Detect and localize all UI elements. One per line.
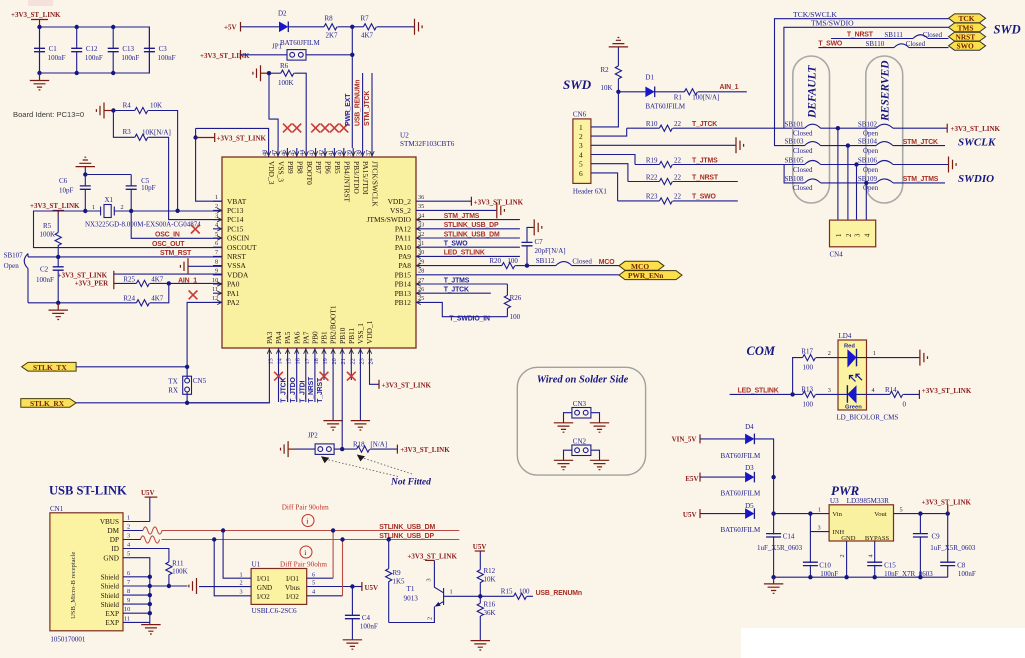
svg-text:100nF: 100nF	[85, 54, 103, 62]
resistor R5 100K	[40, 216, 62, 257]
U2 left pin names	[227, 197, 257, 307]
svg-text:Wired on Solder Side: Wired on Solder Side	[537, 375, 629, 386]
svg-text:PA7: PA7	[301, 331, 310, 344]
svg-text:BAT60JFILM: BAT60JFILM	[645, 103, 685, 111]
svg-text:USB_RENUMn: USB_RENUMn	[355, 80, 362, 126]
wire +3V3 to VDD_3 pin48	[196, 128, 269, 148]
svg-text:3: 3	[240, 589, 243, 596]
svg-text:20pF[N/A]: 20pF[N/A]	[535, 247, 566, 255]
resistor R20 100 (pin29 row)	[425, 257, 527, 269]
svg-text:T_JTCK: T_JTCK	[281, 377, 288, 402]
svg-text:100K: 100K	[172, 568, 188, 576]
svg-text:100: 100	[510, 313, 521, 321]
diode D5 BAT60JFILM	[700, 502, 761, 534]
svg-text:R4: R4	[123, 102, 132, 110]
svg-text:2: 2	[828, 350, 831, 357]
wire DM red row	[162, 530, 460, 532]
node gnd rail	[56, 301, 60, 305]
wire GND pin5 down	[123, 558, 150, 623]
power flag U5V (R12)	[473, 543, 487, 570]
annotation Diff Pair 90ohm (lower)	[280, 546, 327, 569]
capacitor C15 10nF_X7R_0603	[867, 561, 933, 578]
svg-text:+3V3_ST_LINK: +3V3_ST_LINK	[217, 135, 267, 143]
ground bars (R6 left)	[253, 65, 269, 81]
svg-text:CN3: CN3	[573, 400, 587, 408]
solder bridge SB102	[838, 120, 947, 137]
svg-text:6: 6	[312, 571, 315, 578]
node +3V3/VBAT	[193, 135, 197, 139]
svg-text:DP: DP	[110, 536, 119, 544]
svg-text:1: 1	[579, 123, 583, 132]
svg-text:100[N/A]: 100[N/A]	[692, 94, 719, 102]
svg-text:U5V: U5V	[473, 543, 487, 551]
svg-text:TX: TX	[168, 377, 177, 385]
svg-text:18: 18	[313, 358, 320, 364]
U2 top pin names (rotated)	[267, 161, 379, 207]
svg-text:R26: R26	[510, 294, 522, 302]
jumper JP2	[296, 432, 334, 455]
svg-text:GND: GND	[103, 554, 119, 562]
svg-text:SB109: SB109	[858, 175, 878, 183]
svg-text:USBLC6-2SC6: USBLC6-2SC6	[252, 607, 298, 615]
svg-text:I/O1: I/O1	[286, 575, 299, 583]
wire U1 pin5 Vbus to U5V	[307, 586, 353, 588]
capacitor C5 10pF	[126, 175, 156, 212]
svg-text:TMS: TMS	[958, 23, 974, 32]
svg-text:EXP: EXP	[105, 610, 119, 618]
svg-text:EXP: EXP	[105, 619, 119, 627]
ground (C2 bottom)	[49, 303, 68, 320]
svg-text:SWDIO: SWDIO	[958, 173, 994, 185]
svg-text:5: 5	[127, 551, 130, 558]
node DM/U1 pin6	[331, 528, 335, 532]
capacitor C1	[34, 27, 66, 73]
svg-text:PA6: PA6	[292, 331, 301, 344]
svg-text:0: 0	[903, 401, 907, 409]
svg-text:C3: C3	[159, 45, 168, 53]
svg-text:19: 19	[322, 358, 329, 364]
svg-text:1: 1	[127, 515, 130, 522]
wire T_SWO pin31	[425, 241, 520, 248]
svg-text:VBAT: VBAT	[227, 197, 247, 206]
svg-text:17: 17	[304, 358, 311, 364]
svg-text:PB9: PB9	[286, 161, 295, 174]
svg-text:10pF: 10pF	[141, 184, 156, 192]
pin clock chevrons U2 right	[416, 217, 420, 304]
wire X1 pin2 to PC13	[131, 210, 222, 212]
ground bars (C7)	[534, 219, 542, 235]
svg-text:R20: R20	[489, 257, 501, 265]
wire CN4 verticals	[838, 128, 866, 220]
svg-text:OSC_OUT: OSC_OUT	[152, 241, 185, 248]
svg-text:100: 100	[519, 588, 530, 596]
wire D2 to R8	[288, 26, 324, 28]
node row3/CN4	[854, 162, 858, 166]
svg-text:13: 13	[267, 358, 274, 364]
svg-text:VSS_1: VSS_1	[356, 323, 365, 344]
svg-text:1K5: 1K5	[393, 578, 406, 586]
svg-text:VSSA: VSSA	[227, 261, 247, 270]
svg-text:U5V: U5V	[141, 489, 155, 497]
resistor R6 100K	[269, 62, 306, 148]
svg-text:LD3985M33R: LD3985M33R	[847, 497, 890, 505]
svg-text:BAT60JFILM: BAT60JFILM	[280, 39, 320, 47]
svg-text:16: 16	[295, 358, 302, 364]
svg-text:PA3: PA3	[265, 331, 274, 344]
svg-text:2: 2	[121, 204, 124, 211]
transistor T1 9013	[389, 560, 481, 622]
capacitor C13	[108, 27, 140, 73]
wire T_JTMS pin27	[425, 277, 507, 284]
Not Fitted annotation with dotted arrows	[321, 455, 431, 488]
wire D4 to rail	[754, 439, 773, 477]
resistor R25 4K7	[114, 276, 222, 287]
svg-text:PWR_EXT: PWR_EXT	[345, 93, 352, 126]
pin direction arrows U2 top	[266, 151, 374, 156]
node R17/R13	[790, 392, 794, 396]
svg-text:8: 8	[215, 258, 218, 265]
ground (crystal top)	[76, 157, 95, 174]
svg-text:R8: R8	[325, 15, 334, 23]
svg-text:C9: C9	[932, 533, 941, 541]
svg-text:4: 4	[579, 150, 583, 159]
svg-text:JP1: JP1	[272, 43, 283, 51]
svg-text:+3V3_ST_LINK: +3V3_ST_LINK	[407, 553, 457, 561]
capacitor C7 20pF[N/A]	[522, 227, 566, 265]
svg-text:15: 15	[286, 358, 293, 364]
svg-text:PB4/JNTRST: PB4/JNTRST	[342, 161, 351, 203]
svg-text:9: 9	[215, 268, 218, 275]
svg-text:10K: 10K	[484, 575, 496, 583]
svg-text:PC14: PC14	[227, 215, 244, 224]
svg-text:MCO: MCO	[599, 259, 615, 266]
svg-text:VSS_3: VSS_3	[277, 161, 286, 182]
svg-text:Open: Open	[863, 184, 879, 192]
wire shield to gnd bars	[150, 585, 169, 587]
svg-text:+3V3_ST_LINK: +3V3_ST_LINK	[400, 446, 450, 454]
node R5/C2 on NRST rail	[56, 255, 60, 259]
wire LED_STLINK row	[730, 393, 803, 395]
svg-text:R13: R13	[801, 386, 813, 394]
svg-text:RX: RX	[168, 386, 178, 394]
svg-text:PB1: PB1	[320, 331, 329, 344]
resistor R22 22 (T_NRST row)	[628, 173, 738, 184]
node row1/CN4	[836, 126, 840, 130]
wire BYPASS down to C15	[867, 541, 874, 577]
wire STLINK_USB_DP pin33	[425, 222, 520, 229]
svg-text:Vin: Vin	[832, 511, 842, 518]
svg-text:BAT60JFILM: BAT60JFILM	[721, 489, 761, 497]
svg-text:T_SWO: T_SWO	[444, 241, 469, 248]
svg-text:R23: R23	[646, 193, 658, 201]
svg-text:PB10: PB10	[338, 327, 347, 344]
svg-text:9: 9	[127, 597, 130, 604]
capacitor C12	[71, 27, 103, 73]
solder bridge SB108	[785, 175, 867, 192]
wire TCK/SWCLK line	[775, 10, 949, 146]
wire ID pin4 to R11	[123, 549, 169, 562]
svg-text:PWR: PWR	[831, 483, 860, 498]
svg-text:I/O1: I/O1	[257, 575, 270, 583]
svg-text:Closed: Closed	[793, 184, 813, 192]
wire pwr bottom rail	[774, 576, 948, 578]
svg-text:D1: D1	[645, 74, 654, 82]
svg-text:VIN_5V: VIN_5V	[672, 436, 697, 444]
wire U1 pin6 to DM	[307, 577, 333, 579]
svg-text:21: 21	[340, 358, 347, 364]
tag PWR_ENn	[619, 271, 682, 280]
svg-text:C13: C13	[122, 45, 134, 53]
svg-text:3: 3	[818, 525, 821, 532]
X mark PA1 pin11	[189, 291, 198, 300]
svg-text:1uF_X5R_0603: 1uF_X5R_0603	[757, 544, 803, 552]
node AIN_1	[167, 281, 171, 285]
wire C10 column	[809, 532, 811, 578]
svg-text:R7: R7	[361, 15, 370, 23]
svg-text:D3: D3	[745, 464, 754, 472]
svg-text:Not Fitted: Not Fitted	[390, 478, 431, 488]
svg-text:BAT60JFILM: BAT60JFILM	[721, 526, 761, 534]
svg-text:Open: Open	[863, 166, 879, 174]
svg-text:BAT60JFILM: BAT60JFILM	[721, 452, 761, 460]
power flag +5V	[224, 22, 241, 32]
jumper CN3	[564, 400, 600, 423]
svg-text:PC15: PC15	[227, 224, 244, 233]
wire shield rows	[123, 577, 150, 623]
wire CN6 pin1 up to D1 node	[591, 92, 619, 127]
diode D1 BAT60JFILM	[618, 74, 685, 111]
svg-text:PA5: PA5	[283, 331, 292, 344]
svg-text:11: 11	[212, 286, 218, 293]
wire +5V to D2	[241, 26, 280, 28]
power flag VIN_5V	[672, 434, 700, 443]
svg-text:5: 5	[215, 231, 218, 238]
wire TMS/SWDIO line	[784, 19, 949, 129]
solder bridge SB109	[858, 175, 945, 192]
connector CN4	[830, 220, 876, 258]
svg-text:2: 2	[127, 523, 130, 530]
svg-text:PWR_ENn: PWR_ENn	[628, 271, 663, 280]
svg-text:Shield: Shield	[101, 574, 120, 582]
regulator U3 LD3985M33R	[829, 497, 893, 542]
wire crystal top rail	[85, 174, 131, 176]
node R6 left	[267, 71, 271, 75]
node C7/SB112	[525, 263, 529, 267]
svg-text:100: 100	[803, 401, 814, 409]
resistor R18 [N/A]	[353, 440, 397, 452]
svg-text:SWD: SWD	[994, 23, 1021, 37]
capacitor C3	[144, 27, 176, 73]
svg-text:OSC_IN: OSC_IN	[155, 232, 180, 239]
svg-text:SB107: SB107	[4, 251, 24, 259]
svg-text:+3V3_ST_LINK: +3V3_ST_LINK	[922, 498, 972, 506]
wire JTCK pin37 stub up	[371, 73, 373, 148]
svg-text:6: 6	[127, 570, 130, 577]
led LD4 LD_BICOLOR_CMS	[836, 332, 898, 422]
svg-text:C6: C6	[59, 177, 68, 185]
svg-text:C8: C8	[957, 561, 966, 569]
svg-text:SB101: SB101	[785, 120, 805, 128]
svg-text:PA15/JTDI: PA15/JTDI	[361, 161, 370, 195]
svg-text:CN6: CN6	[573, 111, 587, 119]
resistor R13 100	[801, 386, 838, 409]
svg-text:GND: GND	[841, 535, 856, 542]
U2 right pin stubs and numbers	[416, 194, 425, 302]
svg-text:PB7: PB7	[314, 161, 323, 174]
svg-text:SB105: SB105	[785, 157, 805, 165]
wire CN6 pin6 to R23 row	[591, 173, 618, 201]
tag STLK_TX	[22, 362, 77, 371]
svg-text:100nF: 100nF	[121, 54, 139, 62]
wire rail down to gnd	[773, 477, 775, 577]
svg-text:Open: Open	[4, 262, 20, 270]
svg-text:Closed: Closed	[793, 130, 813, 138]
svg-text:PB11: PB11	[347, 328, 356, 344]
svg-text:Shield: Shield	[101, 592, 120, 600]
wire NRST rail	[28, 256, 222, 258]
resistor R1 100[N/A]	[655, 89, 747, 102]
svg-text:STM_RST: STM_RST	[160, 250, 192, 257]
svg-text:VSS_2: VSS_2	[390, 206, 411, 215]
wire T_SWDIO_IN pin25	[425, 302, 507, 322]
svg-text:+3V3_ST_LINK: +3V3_ST_LINK	[951, 125, 1001, 133]
node R2/D1/CN6p1	[616, 90, 620, 94]
svg-text:10: 10	[212, 277, 218, 284]
svg-text:+3V3_ST_LINK: +3V3_ST_LINK	[474, 199, 524, 207]
resistor R17 100	[793, 348, 838, 395]
ground (cap bank)	[30, 73, 49, 90]
solder bridge SB111 (T_NRST)	[831, 31, 949, 39]
pin clock chevrons U2 left	[217, 208, 221, 304]
jumper CN2	[564, 438, 600, 461]
svg-text:2: 2	[839, 554, 846, 557]
svg-text:1: 1	[92, 204, 95, 211]
wire JP1 left	[241, 54, 288, 56]
svg-text:SWCLK: SWCLK	[958, 137, 996, 149]
capacitor C2 100nF	[36, 257, 64, 303]
svg-text:PA9: PA9	[399, 252, 412, 261]
node PB10/JP2	[340, 447, 344, 451]
svg-text:T_NRST: T_NRST	[308, 376, 315, 403]
svg-text:TMS/SWDIO: TMS/SWDIO	[811, 19, 854, 28]
wire T_JTCK pin26	[425, 287, 491, 294]
wire CN6 pin4 to R19 row	[591, 155, 635, 165]
wire U3 GND pin down	[839, 541, 846, 577]
X mark PA4	[274, 372, 283, 381]
node X1 pin1 / pin2	[83, 209, 87, 213]
svg-text:14: 14	[277, 357, 284, 364]
white patch bottom right	[741, 628, 1025, 658]
svg-text:PB8: PB8	[295, 161, 304, 174]
svg-text:GND: GND	[257, 584, 272, 592]
pin direction arrows U2 bottom	[267, 349, 372, 354]
wire DP pin3 stub	[123, 539, 141, 541]
power flag U5V (CN1)	[141, 489, 157, 522]
power flag +3V3_ST_LINK (T1)	[407, 553, 457, 561]
connector CN5	[168, 367, 206, 403]
svg-text:1: 1	[215, 194, 218, 201]
svg-text:LD_BICOLOR_CMS: LD_BICOLOR_CMS	[836, 414, 898, 422]
svg-text:11: 11	[124, 615, 130, 622]
wire PA5 stub	[287, 356, 289, 402]
svg-text:PA2: PA2	[227, 298, 240, 307]
svg-text:Closed: Closed	[793, 166, 813, 174]
svg-text:R3: R3	[123, 128, 132, 136]
ground (R2 top)	[609, 38, 628, 66]
svg-text:PB14: PB14	[395, 280, 412, 289]
ground bars (JP2 left)	[281, 441, 297, 457]
wire PA3 to STLK_RX row	[187, 356, 269, 403]
resistor R7 4K7	[352, 15, 414, 40]
wire U1 pin2 gnd row	[199, 586, 251, 588]
svg-text:CN1: CN1	[50, 505, 64, 513]
wire DP red row	[162, 539, 460, 541]
svg-text:U1: U1	[252, 560, 261, 568]
svg-text:ID: ID	[111, 545, 119, 553]
svg-text:100: 100	[803, 363, 814, 371]
svg-text:C4: C4	[362, 614, 371, 622]
svg-text:X1: X1	[105, 196, 114, 204]
resistor R3 10K[N/A]	[113, 111, 222, 220]
stadium RESERVED	[866, 56, 903, 203]
wire VDD_2 pin36 to +3V3	[425, 197, 524, 207]
U2 top pin stubs and numbers	[262, 148, 373, 157]
node DP/U1 pin3	[212, 537, 216, 541]
svg-text:1: 1	[836, 234, 843, 237]
svg-text:LD4: LD4	[839, 332, 852, 340]
connector CN6 Header 6X1	[573, 111, 608, 196]
capacitor C6 10pF	[59, 175, 91, 212]
wire LD4 pin1 to gnd	[867, 350, 928, 366]
power flag U5V (C4)	[352, 582, 378, 592]
solder bridge SB106	[857, 157, 949, 174]
U2 left pin stubs and numbers	[212, 194, 222, 302]
svg-text:T_JTMS: T_JTMS	[692, 157, 718, 164]
svg-text:Shield: Shield	[101, 583, 120, 591]
svg-text:STM32F103CBT6: STM32F103CBT6	[400, 140, 455, 148]
wire STLINK_USB_DM pin32	[425, 231, 520, 238]
ground (CN3 left)	[554, 423, 573, 432]
svg-text:12: 12	[212, 295, 218, 302]
svg-text:D4: D4	[745, 423, 754, 431]
svg-text:VDDA: VDDA	[227, 270, 249, 279]
tag TMS	[949, 23, 986, 32]
svg-text:NRST: NRST	[227, 252, 246, 261]
node DP/R9	[387, 537, 391, 541]
U2 right pin names	[367, 197, 412, 307]
svg-text:PB5: PB5	[333, 161, 342, 174]
svg-text:PA1: PA1	[227, 289, 240, 298]
svg-text:3: 3	[828, 387, 831, 394]
svg-text:VDD_1: VDD_1	[365, 320, 374, 344]
svg-text:STLINK_USB_DM: STLINK_USB_DM	[379, 524, 435, 531]
X mark PC15 pin4	[191, 225, 200, 234]
svg-text:RESERVED: RESERVED	[880, 60, 892, 122]
node DP/U1 pin4	[340, 537, 344, 541]
svg-text:100nF: 100nF	[158, 54, 176, 62]
resistor R19 22 (T_JTMS row)	[635, 156, 805, 167]
ferrite squiggle DM	[143, 527, 162, 534]
wire PB2/BOOT1 to ground	[332, 356, 334, 420]
wire PA15 pin38 stub up	[362, 73, 364, 148]
svg-text:1: 1	[873, 350, 876, 357]
solder bridge SB112	[527, 257, 619, 265]
svg-text:R25: R25	[123, 276, 135, 284]
svg-text:R17: R17	[801, 348, 813, 356]
svg-text:R6: R6	[280, 62, 289, 70]
svg-text:10K[N/A]: 10K[N/A]	[142, 129, 171, 137]
svg-text:1: 1	[240, 571, 243, 578]
